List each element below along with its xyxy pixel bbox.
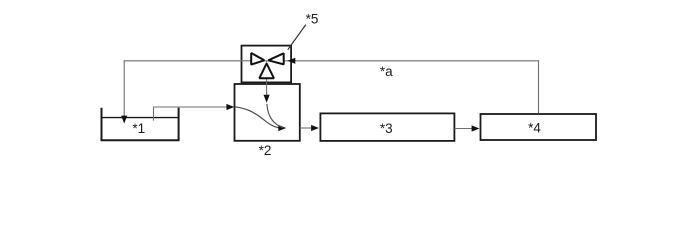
wire <box>235 107 287 131</box>
wire <box>287 58 538 114</box>
svg-text:*5: *5 <box>306 11 319 26</box>
wire <box>264 61 270 103</box>
wire <box>267 104 284 128</box>
tank T1 <box>102 108 179 140</box>
svg-text:*2: *2 <box>259 143 272 158</box>
svg-text:*3: *3 <box>380 121 393 136</box>
svg-text:*4: *4 <box>528 120 541 135</box>
wire <box>154 104 235 121</box>
box U3 <box>320 113 454 140</box>
box U4 <box>481 114 597 140</box>
wire <box>300 125 319 131</box>
box U2 <box>235 84 300 141</box>
svg-text:*a: *a <box>380 64 393 79</box>
wire <box>121 61 294 124</box>
wire <box>454 125 479 131</box>
wire <box>288 25 306 50</box>
valve V5 internals <box>251 53 284 78</box>
svg-text:*1: *1 <box>132 121 145 136</box>
valve V5 body <box>242 46 292 83</box>
